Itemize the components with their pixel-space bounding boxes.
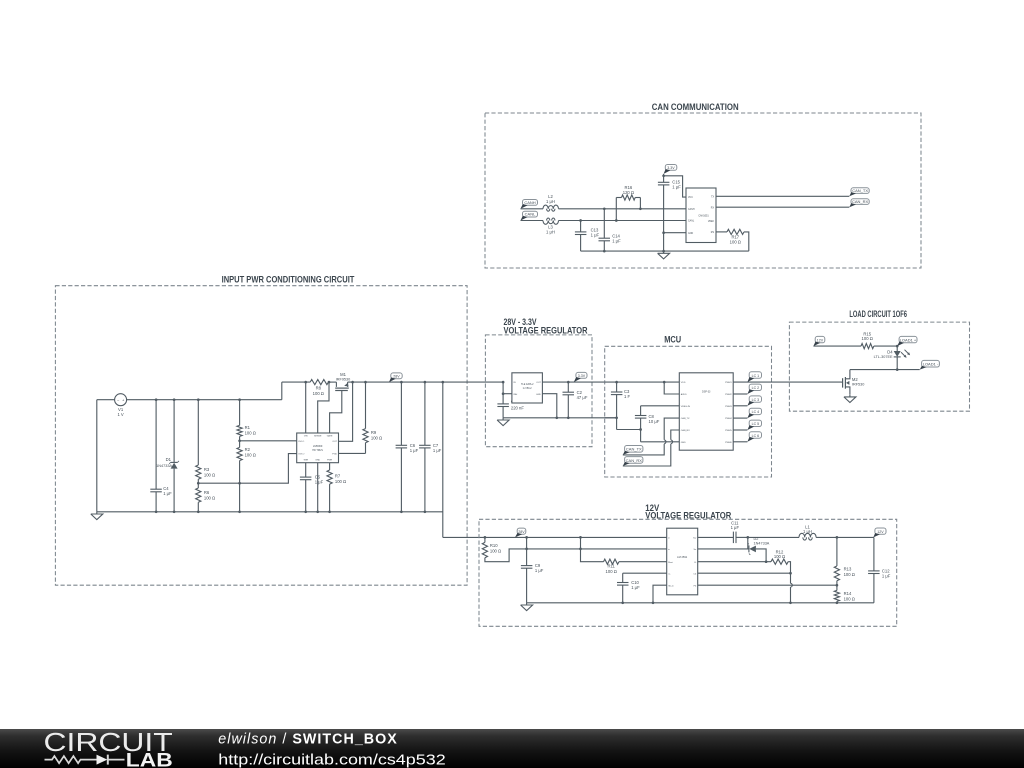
svg-text:CAN_TX: CAN_TX — [626, 447, 642, 452]
svg-text:1 F: 1 F — [624, 394, 630, 399]
svg-text:1 μF: 1 μF — [410, 448, 419, 453]
svg-text:VCC: VCC — [688, 197, 693, 199]
svg-text:PGD: PGD — [332, 454, 337, 456]
svg-text:220 nF: 220 nF — [511, 405, 524, 410]
svg-text:120 Ω: 120 Ω — [623, 190, 634, 195]
svg-text:CAN_TX: CAN_TX — [852, 188, 868, 193]
svg-text:1 μF: 1 μF — [535, 568, 544, 573]
svg-text:3.3V: 3.3V — [667, 166, 675, 170]
svg-text:elwilson / SWITCH_BOX: elwilson / SWITCH_BOX — [218, 732, 398, 748]
svg-text:OUT: OUT — [536, 382, 541, 384]
svg-text:PWM1: PWM1 — [725, 382, 732, 384]
svg-text:LC 6: LC 6 — [752, 434, 760, 438]
svg-text:R3: R3 — [204, 467, 210, 472]
svg-text:SENSE: SENSE — [314, 436, 322, 438]
svg-text:100 Ω: 100 Ω — [204, 495, 215, 500]
svg-text:1 μH: 1 μH — [546, 199, 555, 204]
svg-text:1 μF: 1 μF — [591, 233, 600, 238]
svg-text:CAN_TX: CAN_TX — [681, 417, 690, 420]
svg-text:GND: GND — [681, 442, 686, 444]
svg-text:GND: GND — [688, 233, 693, 235]
svg-text:1 μH: 1 μH — [803, 529, 812, 534]
svg-text:LM 2591: LM 2591 — [677, 555, 688, 559]
svg-text:HD TRUS: HD TRUS — [312, 449, 323, 452]
svg-text:47 μF: 47 μF — [577, 395, 588, 400]
svg-text:CAN COMMUNICATION: CAN COMMUNICATION — [652, 102, 739, 112]
svg-text:http://circuitlab.com/cs4p532: http://circuitlab.com/cs4p532 — [218, 751, 445, 768]
svg-text:RS: RS — [711, 232, 715, 234]
svg-text:IRF530: IRF530 — [852, 383, 864, 387]
svg-text:1 μH: 1 μH — [546, 230, 555, 235]
svg-text:OVLO: OVLO — [298, 454, 304, 456]
svg-text:PWR: PWR — [327, 460, 333, 462]
svg-text:CAN1051: CAN1051 — [698, 215, 709, 218]
svg-text:VDD: VDD — [681, 382, 686, 384]
svg-text:PWM3: PWM3 — [725, 406, 732, 408]
svg-text:GATE: GATE — [327, 435, 333, 438]
svg-text:PWM4: PWM4 — [725, 418, 732, 420]
svg-text:MCU: MCU — [664, 334, 681, 344]
svg-text:12V: 12V — [817, 338, 824, 342]
svg-text:M1: M1 — [340, 372, 346, 377]
svg-text:LOAD1 -: LOAD1 - — [923, 362, 939, 367]
svg-text:LC 3: LC 3 — [752, 398, 760, 402]
svg-text:CAN_RX: CAN_RX — [852, 199, 869, 204]
svg-text:LC 4: LC 4 — [752, 410, 760, 414]
svg-text:RX: RX — [711, 207, 715, 209]
svg-text:1N4733A: 1N4733A — [156, 464, 172, 468]
svg-text:VREG-IN: VREG-IN — [681, 406, 691, 408]
svg-text:VOLTAGE REGULATOR: VOLTAGE REGULATOR — [645, 511, 732, 521]
svg-text:1 μF: 1 μF — [433, 448, 442, 453]
svg-text:R6: R6 — [204, 490, 210, 495]
svg-text:1 μF: 1 μF — [315, 479, 324, 484]
svg-text:AVDD: AVDD — [681, 393, 687, 396]
svg-text:R10: R10 — [490, 543, 498, 548]
svg-text:Rext: Rext — [668, 561, 673, 564]
svg-text:100 Ω: 100 Ω — [862, 336, 873, 341]
svg-text:100 Ω: 100 Ω — [844, 572, 855, 577]
svg-text:1 μF: 1 μF — [163, 491, 172, 496]
svg-text:D1: D1 — [166, 457, 172, 462]
svg-text:12V: 12V — [877, 530, 884, 534]
svg-text:LC 1: LC 1 — [752, 374, 760, 378]
svg-text:100 Ω: 100 Ω — [730, 239, 741, 244]
svg-text:OUT: OUT — [332, 441, 337, 443]
svg-text:TLE 4266-2: TLE 4266-2 — [521, 383, 534, 386]
svg-text:GND: GND — [536, 394, 541, 396]
svg-text:VREF: VREF — [708, 221, 715, 223]
svg-text:CANL: CANL — [525, 212, 536, 217]
svg-text:SD-in: SD-in — [668, 585, 674, 587]
svg-text:LC 5: LC 5 — [752, 422, 760, 426]
svg-text:R8: R8 — [316, 385, 322, 390]
svg-text:INH: INH — [513, 394, 517, 396]
svg-text:100 Ω: 100 Ω — [313, 391, 324, 396]
svg-text:CAN_RX: CAN_RX — [681, 429, 690, 432]
svg-text:1 μF: 1 μF — [731, 525, 740, 530]
svg-text:R9: R9 — [371, 430, 377, 435]
svg-text:3.3V: 3.3V — [578, 374, 586, 378]
svg-text:M2: M2 — [852, 377, 858, 382]
svg-text:100 Ω: 100 Ω — [606, 569, 617, 574]
svg-text:100 Ω: 100 Ω — [335, 479, 346, 484]
svg-text:UVLO: UVLO — [298, 441, 304, 443]
svg-text:R14: R14 — [844, 591, 852, 596]
svg-text:1 μF: 1 μF — [672, 184, 681, 189]
svg-text:CANL: CANL — [688, 220, 695, 223]
svg-text:VOLTAGE REGULATOR: VOLTAGE REGULATOR — [504, 325, 589, 335]
svg-text:R11: R11 — [608, 563, 616, 568]
svg-text:D4: D4 — [887, 349, 893, 354]
svg-text:TX: TX — [711, 196, 714, 198]
svg-text:PWM6: PWM6 — [725, 442, 732, 444]
svg-text:28V: 28V — [393, 374, 400, 378]
svg-text:1 μF: 1 μF — [631, 585, 640, 590]
svg-text:IRF9530: IRF9530 — [336, 378, 351, 382]
svg-text:LC 2: LC 2 — [752, 386, 760, 390]
svg-text:R2: R2 — [245, 447, 251, 452]
svg-text:LTL-307EE: LTL-307EE — [874, 355, 893, 359]
svg-text:DSP-33: DSP-33 — [702, 391, 711, 394]
svg-text:PWM5: PWM5 — [725, 430, 732, 432]
svg-text:100 Ω: 100 Ω — [774, 554, 785, 559]
svg-text:100 Ω: 100 Ω — [204, 472, 215, 477]
svg-text:CANH: CANH — [524, 200, 535, 205]
svg-text:G V50-2: G V50-2 — [523, 387, 533, 390]
svg-text:LOAD1 +: LOAD1 + — [900, 337, 917, 342]
svg-text:100 Ω: 100 Ω — [371, 436, 382, 441]
svg-text:VIN: VIN — [304, 436, 308, 438]
svg-text:PWM2: PWM2 — [725, 394, 732, 396]
svg-text:100 Ω: 100 Ω — [245, 430, 256, 435]
svg-text:10 μF: 10 μF — [649, 419, 660, 424]
svg-text:LAB: LAB — [126, 751, 173, 768]
svg-text:28V: 28V — [518, 530, 525, 534]
svg-text:TMR: TMR — [303, 460, 308, 462]
svg-text:GND: GND — [315, 460, 320, 462]
svg-text:100 Ω: 100 Ω — [844, 597, 855, 602]
svg-text:R7: R7 — [335, 474, 341, 479]
svg-text:1 μF: 1 μF — [612, 239, 621, 244]
svg-text:Sw: Sw — [693, 538, 696, 540]
svg-text:1 μF: 1 μF — [882, 573, 891, 578]
svg-text:LM5069: LM5069 — [313, 444, 323, 448]
svg-text:1N4733A: 1N4733A — [754, 541, 770, 545]
svg-text:R13: R13 — [844, 567, 852, 572]
svg-text:CAN_RX: CAN_RX — [626, 458, 643, 463]
svg-text:R1: R1 — [245, 425, 251, 430]
svg-text:INPUT PWR CONDITIONING CIRCUIT: INPUT PWR CONDITIONING CIRCUIT — [222, 275, 355, 285]
svg-text:100 Ω: 100 Ω — [245, 452, 256, 457]
svg-text:CANH: CANH — [688, 208, 695, 211]
svg-text:100 Ω: 100 Ω — [490, 549, 501, 554]
svg-text:1 V: 1 V — [117, 412, 123, 417]
svg-text:LOAD CIRCUIT 1OF6: LOAD CIRCUIT 1OF6 — [849, 309, 907, 319]
